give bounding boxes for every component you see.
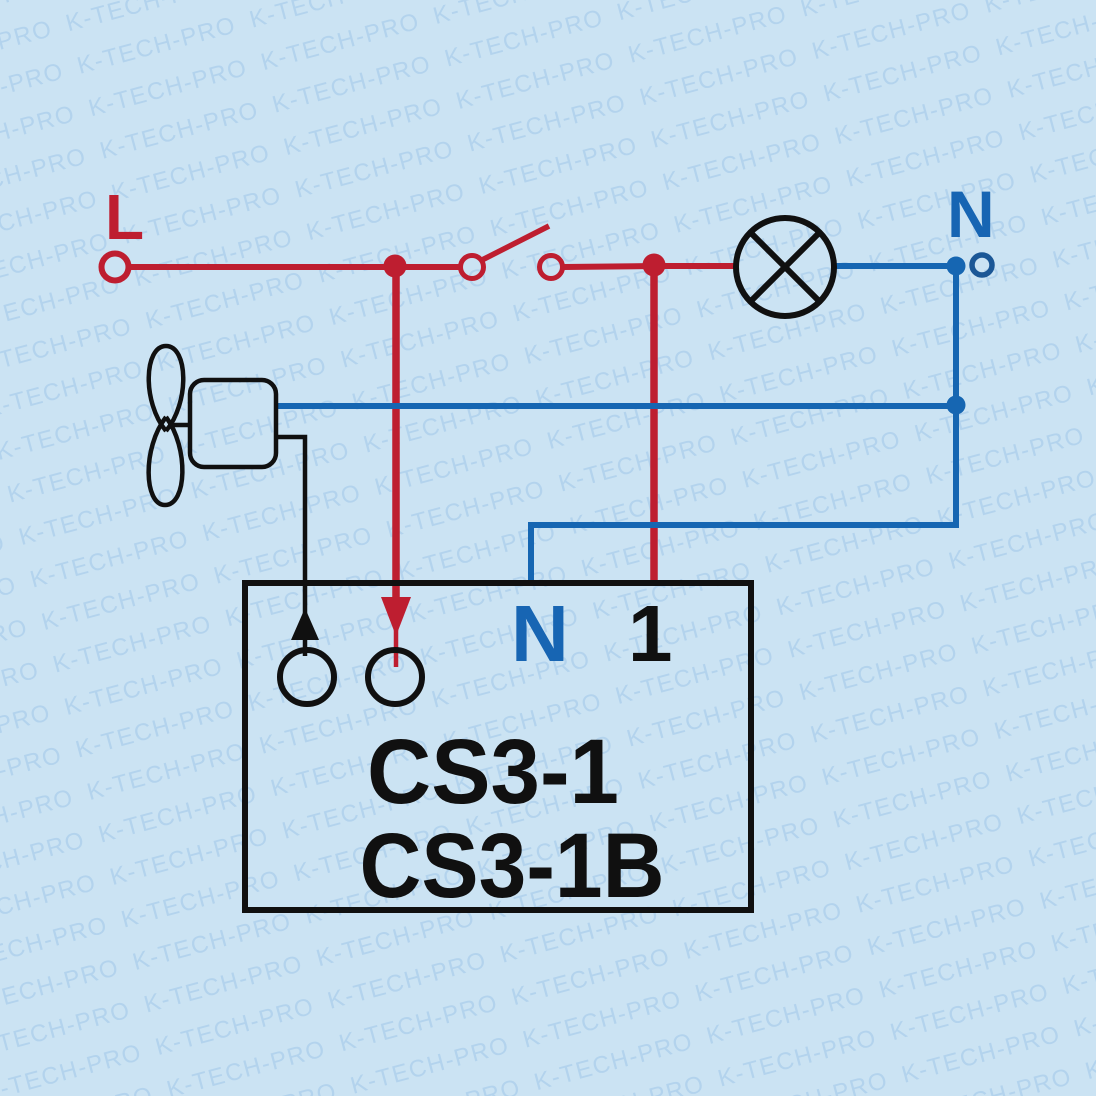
fan hub link	[168, 423, 191, 428]
switch S1 blade	[482, 226, 549, 260]
node junction J1 (red dot)	[384, 255, 407, 278]
wire blue vertical and horizontal to box N	[531, 266, 956, 583]
terminal N (open circle)	[972, 255, 992, 275]
switch S1 right contact	[540, 256, 563, 279]
terminal circle (fan output)	[280, 650, 334, 704]
fan motor body	[190, 380, 276, 467]
svg-text:CS3-1B: CS3-1B	[360, 815, 665, 917]
wire L to switch (red)	[130, 264, 459, 270]
fan M1 blades	[149, 346, 276, 505]
arrowhead red down into box	[381, 597, 411, 636]
wire lamp to N terminal (blue)	[835, 263, 958, 269]
svg-text:N: N	[947, 177, 995, 251]
node junction J3 (blue dot)	[947, 257, 966, 276]
svg-text:CS3-1: CS3-1	[367, 721, 619, 823]
svg-text:1: 1	[628, 589, 673, 678]
svg-text:L: L	[105, 181, 144, 253]
wire red vertical J2 down to box terminal 1	[650, 265, 658, 582]
wire J2 to lamp (red)	[654, 263, 736, 269]
arrowhead black up	[291, 608, 319, 640]
node junction J4 (blue dot)	[947, 396, 966, 415]
wire fan black to box	[276, 437, 305, 656]
switch S1 left contact	[461, 256, 484, 279]
box CS3-1	[245, 583, 751, 910]
wire red vertical J1 down to box arrow	[392, 266, 400, 604]
svg-text:N: N	[511, 589, 569, 678]
node junction J2 (red dot)	[643, 254, 666, 277]
lamp E1	[736, 218, 834, 316]
wire switch to J2 (red)	[564, 266, 656, 267]
terminal L (open circle)	[102, 254, 129, 281]
wire fan to J4 (blue)	[275, 403, 956, 409]
terminal circle (L input)	[368, 650, 422, 704]
